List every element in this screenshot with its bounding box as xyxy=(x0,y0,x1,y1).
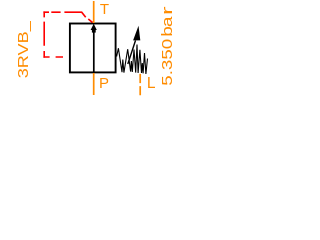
pilot line - diagonal dash to junction xyxy=(88,19,92,23)
T port line xyxy=(93,1,95,23)
svg-text:P: P xyxy=(99,75,109,92)
pilot line (red dashed) - bottom horizontal dashes xyxy=(43,56,63,58)
L drain line (orange dashed) xyxy=(139,74,141,96)
svg-text:5.350: 5.350 xyxy=(159,39,176,86)
flow path arrowhead xyxy=(91,24,97,30)
svg-text:r: r xyxy=(159,6,175,15)
P port line xyxy=(93,73,95,95)
svg-text:L: L xyxy=(147,75,156,92)
pilot line - top horizontal dashes xyxy=(43,12,85,17)
adjustment arrowhead xyxy=(133,26,140,41)
pilot line - left vertical dashes xyxy=(43,11,45,57)
flow path line inside box xyxy=(93,31,95,73)
svg-text:3RVB_: 3RVB_ xyxy=(15,20,31,78)
svg-text:T: T xyxy=(100,1,109,18)
spring zigzag xyxy=(117,45,148,75)
flow path arrow tail block xyxy=(92,30,96,33)
svg-text:b: b xyxy=(159,26,176,36)
adjustment arrow shaft xyxy=(128,41,136,65)
svg-text:a: a xyxy=(159,16,176,27)
valve body box xyxy=(70,24,116,73)
